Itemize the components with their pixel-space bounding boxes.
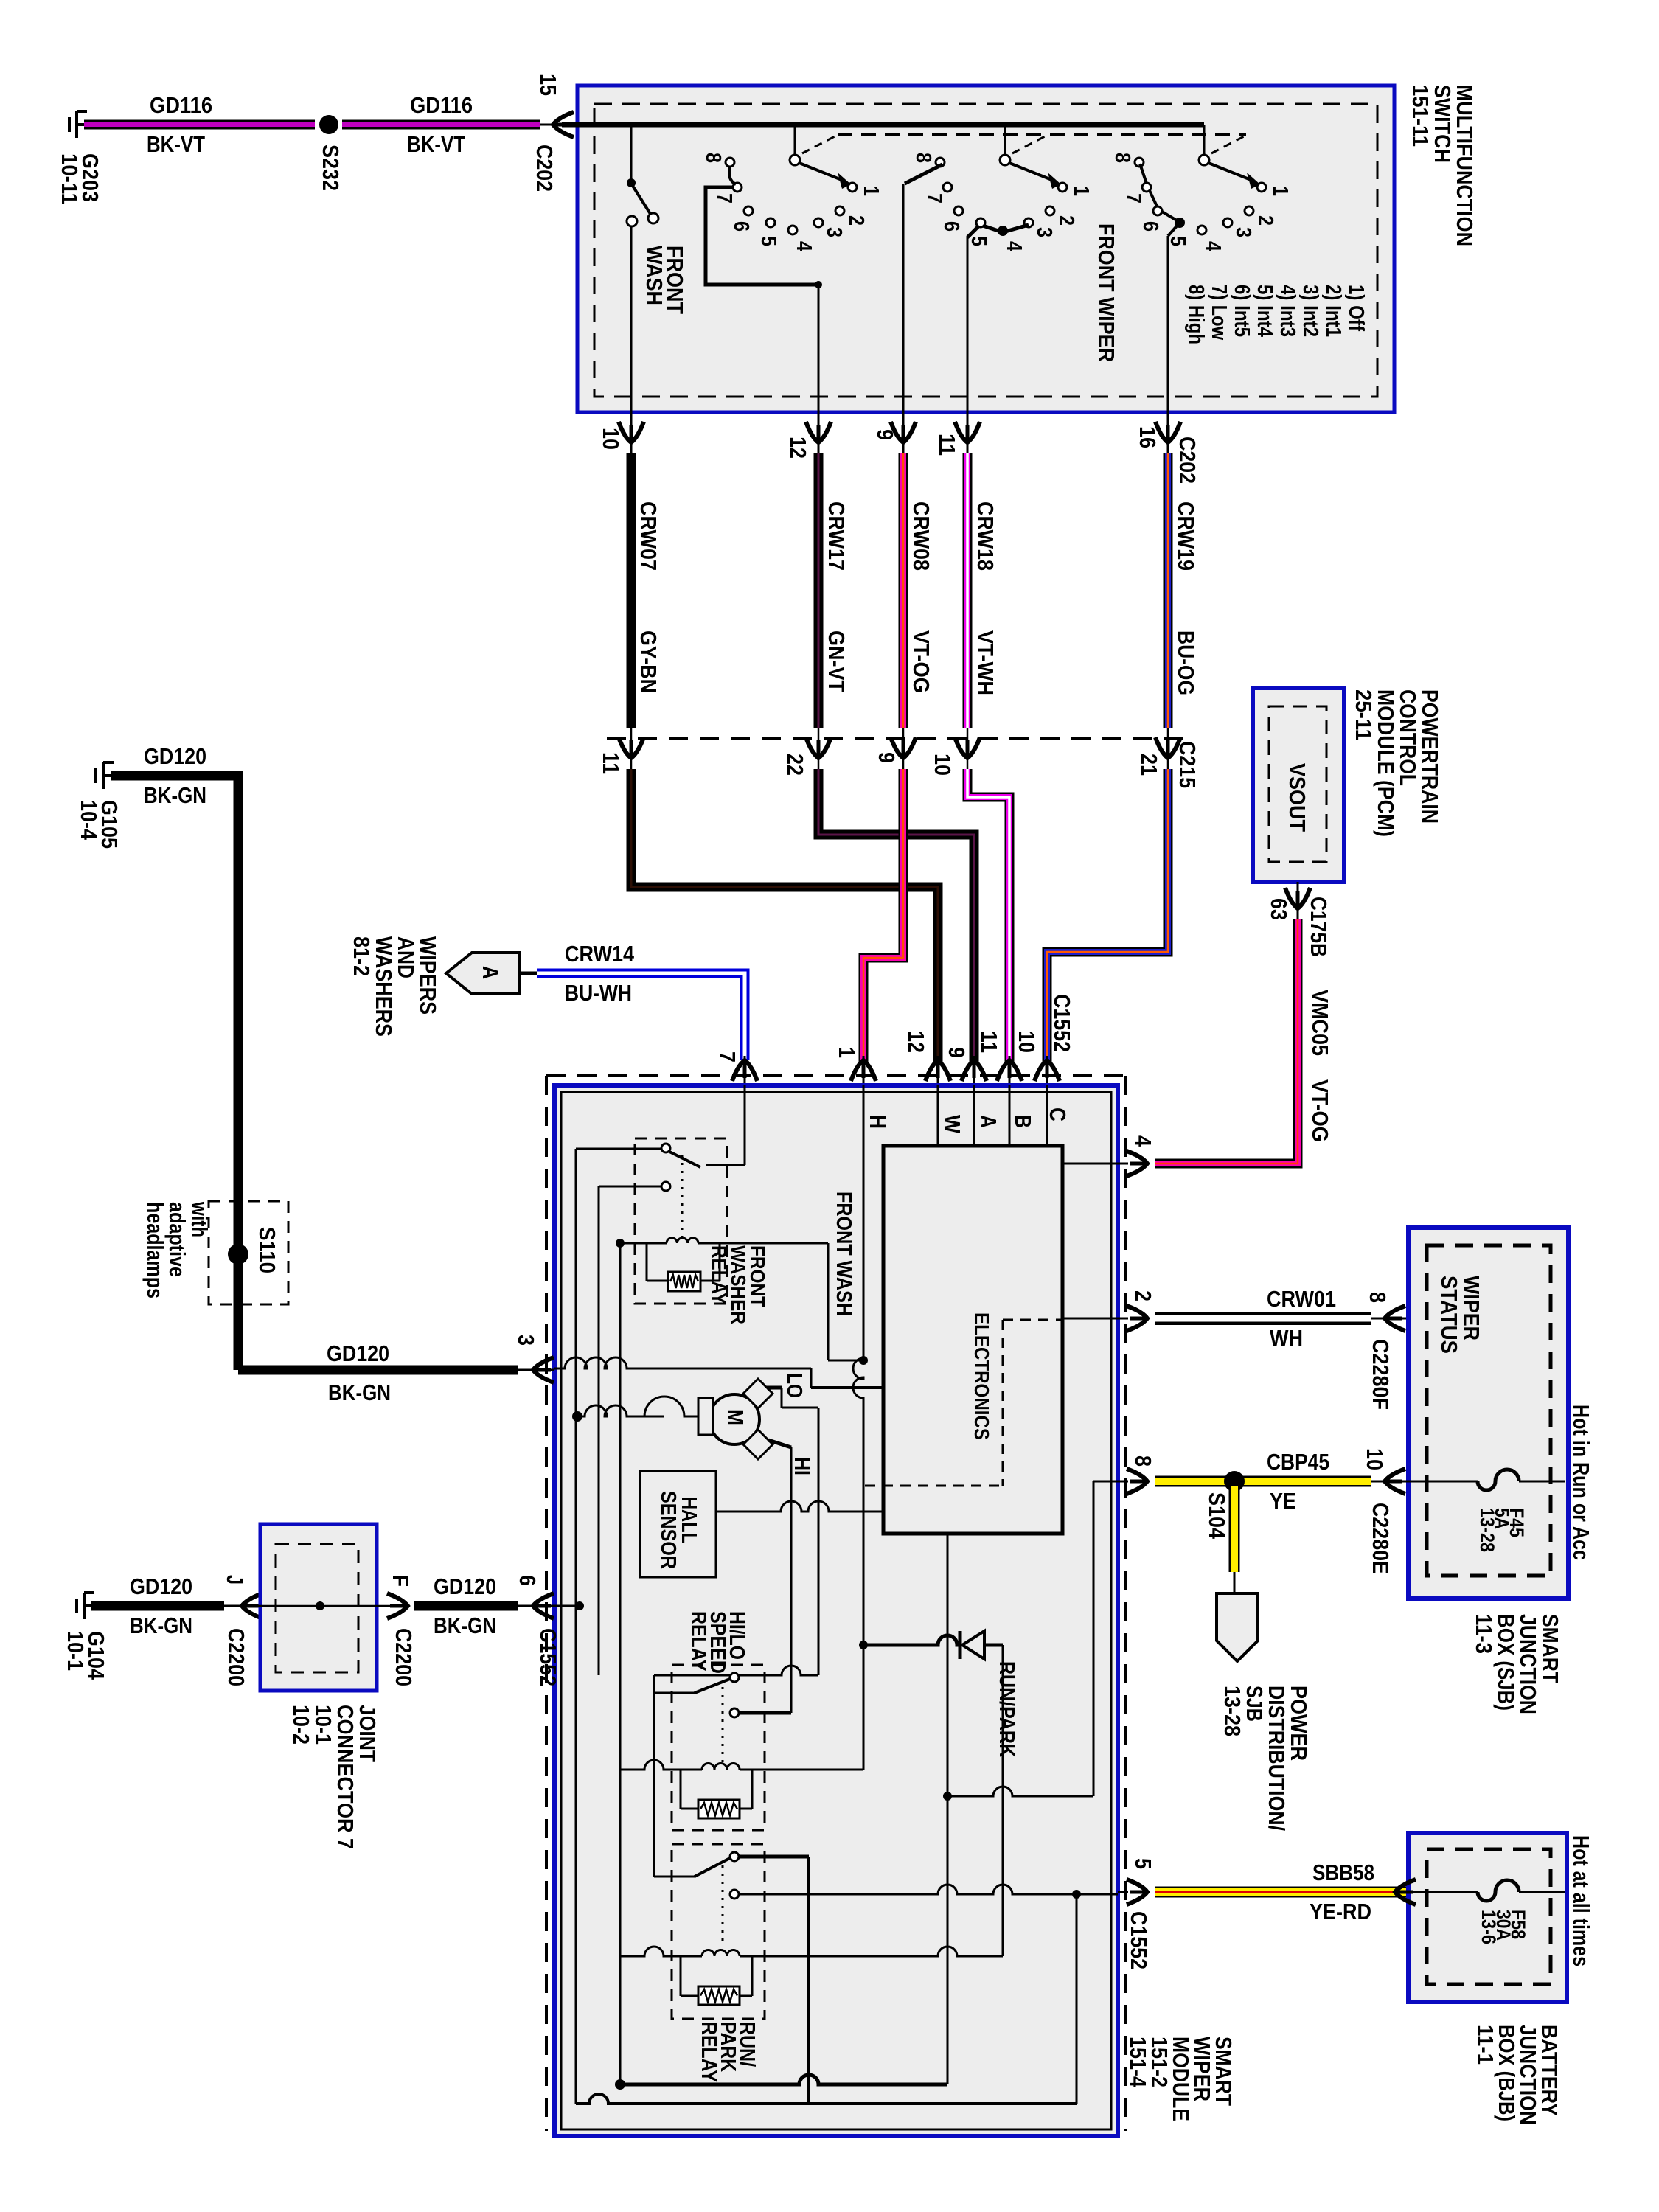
svg-text:BK-GN: BK-GN [434, 1613, 496, 1638]
joint connector 7 box [260, 1524, 377, 1691]
pin 2 line [1062, 1318, 1118, 1320]
svg-text:H: H [865, 1115, 891, 1129]
svg-text:YE: YE [1270, 1488, 1296, 1514]
svg-text:BU-OG: BU-OG [1173, 630, 1199, 695]
svg-text:7: 7 [1121, 193, 1145, 204]
svg-text:3: 3 [822, 227, 846, 237]
svg-text:CRW01: CRW01 [1267, 1286, 1336, 1312]
motor M [709, 1394, 759, 1444]
svg-text:S232: S232 [318, 145, 344, 191]
svg-text:10-2: 10-2 [288, 1705, 314, 1745]
svg-text:12: 12 [785, 437, 811, 459]
svg-text:HI: HI [790, 1457, 813, 1475]
svg-text:A: A [478, 966, 504, 979]
svg-text:4: 4 [1130, 1135, 1156, 1147]
svg-text:J: J [222, 1575, 248, 1585]
washer relay coil + resistor [667, 1238, 698, 1243]
svg-text:BK-VT: BK-VT [147, 131, 205, 157]
svg-text:10-4: 10-4 [76, 800, 102, 841]
wire CRW08 VT-OG (C202-9 to C215-9) [899, 453, 908, 728]
svg-text:Hot at all times: Hot at all times [1568, 1835, 1594, 1966]
svg-text:1: 1 [1069, 186, 1093, 196]
svg-text:GY-BN: GY-BN [636, 630, 661, 693]
module pin 4 [1127, 1151, 1147, 1176]
svg-text:6) Int5: 6) Int5 [1230, 285, 1253, 337]
svg-text:7: 7 [922, 193, 946, 204]
svg-text:C2280E: C2280E [1368, 1503, 1394, 1574]
mechanical link (dashed) [838, 133, 1246, 136]
svg-text:C: C [1045, 1107, 1071, 1121]
svg-text:GD120: GD120 [327, 1340, 389, 1366]
PCM pin 63 C175B [1297, 882, 1299, 919]
wire internal bus from pin 15 [562, 122, 1204, 128]
connector C202 bottom pins [630, 412, 633, 453]
svg-text:8: 8 [1130, 1455, 1156, 1467]
svg-text:BK-GN: BK-GN [328, 1380, 391, 1405]
svg-text:9: 9 [944, 1047, 970, 1058]
wire LO [767, 1386, 782, 1390]
connector C2200 pin F [387, 1593, 408, 1618]
svg-text:10: 10 [1014, 1031, 1040, 1053]
svg-text:3: 3 [513, 1335, 539, 1346]
hi/lo speed relay [672, 1665, 765, 1830]
svg-text:4: 4 [1201, 241, 1225, 251]
motor feed wire [577, 1405, 664, 1416]
svg-text:C175B: C175B [1306, 897, 1332, 957]
diode and run/park feed [863, 1635, 960, 1645]
svg-text:12: 12 [903, 1031, 929, 1053]
pin 6 stub [554, 1605, 580, 1607]
svg-text:3: 3 [1231, 227, 1255, 237]
wire GD120 BK-GN to module pin 6 [414, 1601, 518, 1611]
switch FRONT WIPER wafer at x=1633 [1203, 125, 1206, 154]
module internal pin leads H W A B C [863, 1085, 865, 1146]
svg-text:RELAY: RELAY [697, 2022, 720, 2082]
switch FRONT WIPER wafer at x=1078 [794, 125, 796, 154]
svg-text:5: 5 [757, 236, 780, 246]
svg-text:C202: C202 [1175, 437, 1200, 484]
wire CRW07 GY-BN (C202-10 to C215-11) [627, 453, 636, 728]
svg-text:8) High: 8) High [1184, 285, 1208, 344]
svg-text:13-28: 13-28 [1220, 1686, 1245, 1736]
svg-text:10: 10 [1362, 1448, 1388, 1470]
wire GD120 BK-GN from G104 [91, 1601, 224, 1611]
svg-text:10-11: 10-11 [57, 153, 83, 204]
svg-text:RUN/PARK: RUN/PARK [995, 1661, 1018, 1757]
hall sensor box [640, 1471, 716, 1577]
svg-text:1: 1 [834, 1047, 860, 1058]
svg-text:8: 8 [911, 153, 935, 163]
svg-text:10-1: 10-1 [63, 1631, 88, 1671]
svg-text:FRONT WASH: FRONT WASH [832, 1192, 855, 1316]
wire GD116 segment 1 BK-VT [84, 120, 315, 130]
wire CRW17 GN-VT (C202-12 to C215-22) [814, 453, 824, 728]
svg-text:C2200: C2200 [223, 1628, 249, 1686]
svg-text:2: 2 [1253, 215, 1277, 226]
multifunction switch box [577, 86, 1394, 412]
svg-text:CBP45: CBP45 [1267, 1449, 1329, 1475]
svg-text:F: F [388, 1575, 414, 1587]
svg-text:2) Int1: 2) Int1 [1321, 285, 1345, 337]
svg-text:GD120: GD120 [144, 743, 206, 769]
wire GD120 BK-GN to module pin 3 [238, 1366, 518, 1375]
connector C1552 module top pins [744, 1056, 746, 1085]
svg-text:C1552: C1552 [535, 1628, 561, 1686]
svg-text:11-1: 11-1 [1472, 2025, 1498, 2065]
svg-text:16: 16 [1135, 426, 1161, 448]
svg-text:4) Int3: 4) Int3 [1276, 285, 1299, 337]
svg-text:M: M [723, 1409, 748, 1425]
svg-text:C2200: C2200 [391, 1628, 417, 1686]
connector C1552 dashed boundary [546, 1074, 1126, 1077]
svg-text:151-4: 151-4 [1125, 2037, 1151, 2088]
ground G104 [84, 1604, 91, 1607]
wire CRW14 BU-WH to module pin 7 [537, 973, 745, 1060]
svg-text:CRW07: CRW07 [636, 501, 661, 571]
svg-text:CRW17: CRW17 [824, 501, 849, 571]
svg-text:9: 9 [874, 752, 900, 763]
svg-text:C215: C215 [1175, 741, 1200, 788]
svg-text:8: 8 [1110, 153, 1134, 163]
svg-text:FRONT WIPER: FRONT WIPER [1093, 223, 1119, 362]
svg-text:2: 2 [844, 215, 868, 226]
svg-text:1: 1 [1268, 186, 1292, 196]
svg-text:BU-WH: BU-WH [565, 980, 632, 1006]
svg-text:5: 5 [1130, 1858, 1156, 1869]
svg-text:WASH: WASH [641, 246, 667, 305]
svg-text:VT-OG: VT-OG [908, 630, 934, 693]
svg-text:BK-VT: BK-VT [407, 131, 465, 157]
wire GD120 BK-GN from G105 [111, 776, 238, 1370]
connector POWER DISTRIBUTION SJB [1217, 1593, 1258, 1661]
svg-text:RELAY: RELAY [686, 1611, 710, 1672]
svg-text:BK-GN: BK-GN [144, 782, 206, 808]
svg-text:CRW14: CRW14 [565, 941, 635, 967]
svg-text:A: A [975, 1115, 1001, 1128]
svg-text:4: 4 [792, 241, 815, 251]
pin 4 line [1062, 1163, 1118, 1165]
svg-text:3) Int2: 3) Int2 [1298, 285, 1322, 337]
svg-text:CRW19: CRW19 [1173, 501, 1199, 571]
connector C215 (dashed) [607, 737, 1187, 740]
svg-text:5: 5 [1166, 236, 1189, 246]
svg-text:11: 11 [934, 434, 960, 456]
svg-text:81-2: 81-2 [349, 936, 375, 976]
svg-text:10: 10 [930, 754, 956, 776]
svg-text:VSOUT: VSOUT [1284, 763, 1310, 832]
module pin 2 / wire CRW01 WH [1127, 1306, 1147, 1331]
svg-text:ELECTRONICS: ELECTRONICS [970, 1312, 993, 1440]
svg-text:C2280F: C2280F [1368, 1339, 1394, 1410]
svg-text:VMC05: VMC05 [1307, 990, 1333, 1056]
battery junction box [1408, 1833, 1567, 2002]
svg-text:Hot in Run or Acc: Hot in Run or Acc [1568, 1405, 1594, 1560]
svg-text:VT-WH: VT-WH [973, 630, 998, 695]
wiper status box [1408, 1228, 1568, 1599]
wire CRW19 BU-OG (C202-16 to C215-21) [1164, 453, 1173, 728]
svg-text:2: 2 [1130, 1290, 1156, 1301]
wire FRONT WASH (relay coil to H line) [827, 1243, 829, 1360]
svg-text:11-3: 11-3 [1471, 1614, 1497, 1654]
svg-text:2: 2 [1054, 215, 1078, 226]
svg-text:7: 7 [712, 193, 736, 204]
electronics box [883, 1146, 1062, 1534]
svg-text:8: 8 [701, 153, 725, 163]
front washer relay (dashed box) [635, 1138, 727, 1304]
wire CRW18 (C215-10 to module pin 11) [967, 769, 1009, 1062]
svg-text:9: 9 [872, 429, 898, 440]
pin 8 line [1093, 1481, 1118, 1483]
wire HI [768, 1440, 791, 1447]
wire CRW08 (C215-9 to module pin 1) [863, 769, 903, 1062]
smart wiper module box [554, 1085, 1118, 2136]
svg-text:GD120: GD120 [130, 1573, 192, 1599]
svg-text:5) Int4: 5) Int4 [1253, 285, 1276, 337]
svg-text:10: 10 [598, 428, 624, 450]
wire CRW19 (C215-21 to module pin 10) [1047, 769, 1168, 1062]
svg-text:5: 5 [967, 236, 990, 246]
ground G203 [77, 123, 84, 126]
svg-text:22: 22 [782, 754, 808, 776]
powertrain control module (PCM) box [1253, 688, 1344, 882]
svg-text:GD116: GD116 [410, 92, 473, 118]
ground G105 [103, 774, 111, 777]
svg-text:1: 1 [859, 186, 883, 196]
left verticals V1 V2 V3 [575, 1149, 577, 2104]
svg-text:11: 11 [598, 752, 624, 774]
wire GD116 segment 2 BK-VT [342, 120, 540, 130]
hall output line [716, 1501, 883, 1512]
svg-text:3: 3 [1032, 227, 1056, 237]
svg-text:21: 21 [1136, 754, 1162, 776]
svg-text:GD116: GD116 [150, 92, 212, 118]
splice S104 [1224, 1471, 1245, 1492]
svg-text:S104: S104 [1204, 1492, 1230, 1540]
svg-text:13-6: 13-6 [1478, 1910, 1500, 1944]
svg-text:STATUS: STATUS [1436, 1276, 1462, 1354]
wire CRW17 (C215-22 to module pin 9) [818, 769, 974, 1062]
module pin 8 / wire CBP45 YE [1127, 1469, 1147, 1494]
svg-text:VT-OG: VT-OG [1307, 1079, 1333, 1142]
svg-text:YE-RD: YE-RD [1310, 1899, 1371, 1924]
connector A (WIPERS AND WASHERS 81-2) [446, 953, 519, 994]
svg-text:LO: LO [782, 1373, 806, 1398]
splice S232 [319, 115, 338, 134]
svg-text:C1552: C1552 [1049, 994, 1075, 1052]
pin 3 ground bus into module [554, 1357, 811, 1368]
switch FRONT WIPER wafer at x=1363 [1004, 125, 1006, 154]
svg-text:SENSOR: SENSOR [656, 1491, 680, 1569]
svg-text:6: 6 [729, 221, 753, 232]
svg-text:15: 15 [535, 74, 561, 96]
svg-text:1) Off: 1) Off [1344, 285, 1368, 331]
splice S110 (dashed box, with adaptive headlamps) [209, 1201, 288, 1304]
pin 8 feed to node [947, 1787, 1093, 1796]
switch FRONT WASH [630, 125, 633, 179]
svg-text:C202: C202 [532, 145, 557, 192]
bottom bus lines [620, 2075, 947, 2084]
svg-text:W: W [939, 1115, 965, 1134]
svg-text:CRW08: CRW08 [908, 501, 934, 571]
svg-text:headlamps: headlamps [142, 1202, 168, 1298]
svg-text:11: 11 [976, 1031, 1002, 1053]
svg-text:25-11: 25-11 [1351, 689, 1377, 740]
svg-text:7) Low: 7) Low [1207, 285, 1231, 340]
svg-text:GD120: GD120 [434, 1573, 496, 1599]
fuse F45 5A [1395, 1481, 1478, 1483]
svg-text:7: 7 [714, 1051, 740, 1062]
svg-text:WH: WH [1270, 1325, 1303, 1351]
svg-text:63: 63 [1266, 898, 1292, 920]
front wash vertical with hops [853, 1146, 863, 1645]
fuse F58 30A [1408, 1891, 1478, 1893]
svg-text:13-28: 13-28 [1476, 1508, 1498, 1552]
svg-text:151-11: 151-11 [1408, 85, 1433, 147]
svg-text:6: 6 [1138, 221, 1162, 232]
module pin 5 / wire SBB58 YE-RD [1127, 1879, 1147, 1905]
svg-text:BK-GN: BK-GN [130, 1613, 192, 1638]
svg-text:CRW18: CRW18 [973, 501, 998, 571]
svg-text:6: 6 [515, 1575, 540, 1586]
svg-text:6: 6 [939, 221, 963, 232]
svg-text:4: 4 [1002, 241, 1026, 251]
svg-text:GN-VT: GN-VT [824, 630, 849, 692]
connector C202 pin 15 [540, 124, 562, 126]
wire VMC05 VT-OG to module pin 4 [1155, 919, 1298, 1164]
run/park relay [672, 1844, 765, 2019]
wire CRW07 (C215-11 to module pin 12) [631, 769, 938, 1062]
svg-text:SBB58: SBB58 [1312, 1860, 1374, 1885]
svg-text:C1552: C1552 [1126, 1911, 1152, 1969]
svg-text:8: 8 [1365, 1292, 1391, 1303]
svg-text:B: B [1010, 1115, 1036, 1128]
svg-text:S110: S110 [254, 1227, 280, 1273]
wire CRW18 VT-WH (C202-11 to C215-10) [963, 453, 973, 728]
